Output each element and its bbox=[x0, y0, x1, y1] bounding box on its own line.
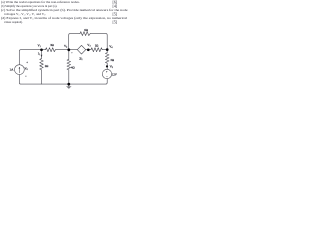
svg-text:2Ω: 2Ω bbox=[45, 64, 49, 68]
resistor 4ohm zigzag bbox=[67, 59, 71, 70]
resistor 3ohm right zigzag bbox=[105, 53, 109, 64]
resistor 6ohm bridge zigzag bbox=[80, 32, 90, 36]
wire left branch lower bbox=[19, 75, 107, 85]
ground node dot bbox=[67, 83, 70, 86]
svg-text:3Ω: 3Ω bbox=[110, 58, 114, 62]
wire diamond to V3 bbox=[86, 49, 91, 51]
svg-text:+: + bbox=[26, 61, 28, 65]
wire 1ohm to V4 bbox=[102, 49, 107, 51]
ground stub bbox=[68, 84, 70, 86]
wire below 4ohm bbox=[68, 70, 70, 84]
svg-text:−: − bbox=[25, 74, 27, 78]
node V3 dot bbox=[87, 48, 90, 51]
resistor 1ohm top-right zigzag bbox=[91, 48, 102, 52]
svg-text:4Ω: 4Ω bbox=[71, 65, 75, 69]
svg-text:12V: 12V bbox=[112, 73, 117, 76]
svg-text:V2: V2 bbox=[64, 44, 67, 49]
svg-text:6Ω: 6Ω bbox=[84, 28, 88, 32]
I1 arrowhead bbox=[41, 55, 43, 57]
wire V2 down with resistor 4ohm bbox=[68, 50, 70, 60]
svg-text:1A: 1A bbox=[10, 68, 15, 72]
svg-text:−: − bbox=[106, 76, 108, 79]
ground bars bbox=[67, 86, 71, 88]
resistor 3ohm top-left zigzag bbox=[46, 48, 56, 52]
wire top left horizontal bbox=[21, 49, 46, 51]
svg-text:2I1: 2I1 bbox=[79, 57, 82, 61]
svg-text:V5: V5 bbox=[110, 64, 114, 69]
dependent source diamond bbox=[77, 45, 85, 54]
right branch: V4 down to resistor 3ohm bbox=[106, 50, 108, 53]
svg-text:+: + bbox=[71, 51, 73, 54]
svg-text:3Ω: 3Ω bbox=[50, 43, 54, 47]
svg-text:V3: V3 bbox=[87, 43, 91, 48]
voltage source 12V circle bbox=[102, 69, 111, 78]
svg-text:+: + bbox=[104, 64, 106, 67]
wire top-left corner and left branch upper bbox=[19, 50, 21, 65]
svg-text:V0: V0 bbox=[25, 67, 28, 72]
bridge riser left from V2 bbox=[69, 34, 80, 50]
wire 12V to bottom bbox=[106, 79, 108, 83]
wire between 3ohm and V2 bbox=[55, 49, 77, 51]
junction dots bbox=[40, 48, 108, 85]
bridge right side to V4 bbox=[90, 34, 107, 50]
resistor 2ohm zigzag bbox=[40, 59, 44, 70]
node V5 dot bbox=[106, 65, 108, 67]
svg-text:1Ω: 1Ω bbox=[95, 44, 99, 48]
svg-text:+: + bbox=[106, 71, 108, 74]
wire below 2ohm bbox=[41, 70, 43, 84]
wire V1 down with resistor 2ohm bbox=[41, 50, 43, 59]
svg-text:V1: V1 bbox=[38, 43, 41, 48]
svg-text:+: + bbox=[78, 50, 80, 52]
current source arrow up bbox=[18, 67, 20, 72]
node V4 dot bbox=[106, 48, 109, 51]
node V1 dot bbox=[40, 48, 43, 51]
node V2 dot bbox=[67, 48, 70, 51]
svg-text:I1: I1 bbox=[38, 53, 40, 57]
svg-text:V4: V4 bbox=[109, 45, 113, 50]
current source I=1A circle bbox=[15, 65, 25, 75]
wire resistor to V5 bbox=[106, 63, 108, 69]
